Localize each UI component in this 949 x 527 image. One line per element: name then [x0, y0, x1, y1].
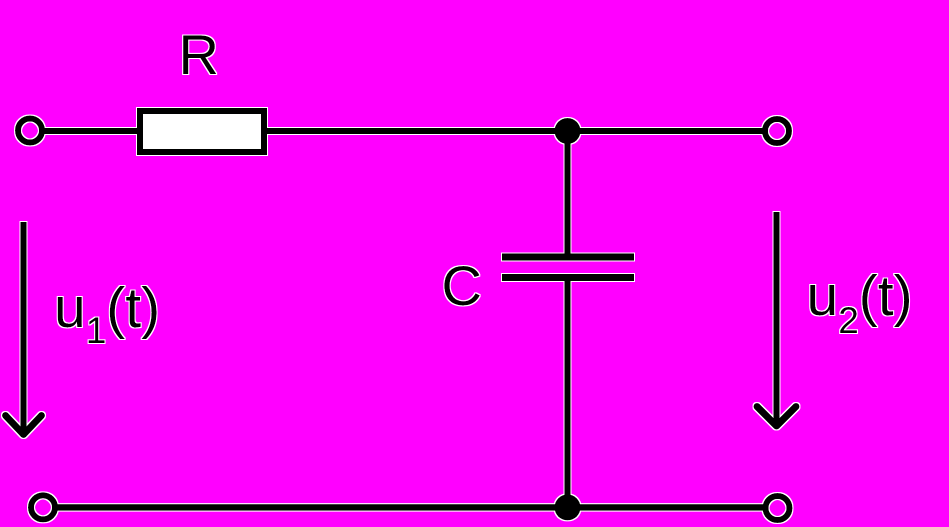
terminal bottom-left (input -)	[31, 495, 55, 519]
wire: top-left terminal to resistor	[44, 128, 140, 134]
terminal top-left (input +)	[18, 119, 42, 143]
svg-text:u1(t): u1(t)	[54, 276, 160, 351]
label C	[442, 254, 482, 317]
label u1(t)	[54, 276, 160, 351]
terminal bottom-right (output -)	[766, 496, 790, 520]
voltage arrow u1 (input)	[6, 222, 42, 435]
wire: resistor to output terminal (top rail)	[264, 128, 763, 134]
resistor R	[140, 111, 264, 152]
label u2(t)	[807, 264, 913, 341]
wire: capacitor down to bottom node	[565, 281, 571, 507]
node top junction	[555, 118, 581, 144]
svg-text:C: C	[442, 254, 482, 317]
node bottom junction	[555, 494, 581, 520]
terminal top-right (output +)	[765, 119, 789, 143]
wire: top node down to capacitor	[565, 131, 571, 255]
wire: bottom rail	[57, 504, 764, 511]
svg-text:R: R	[179, 23, 219, 86]
voltage arrow u2 (output)	[757, 212, 796, 426]
label R	[179, 23, 219, 86]
capacitor C	[502, 257, 634, 278]
